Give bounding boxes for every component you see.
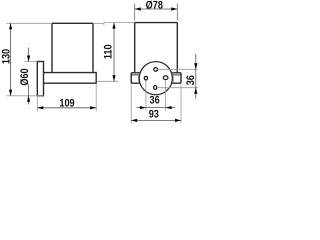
extension line 109 right [95, 83, 97, 111]
dimension Ø78 line [135, 8, 178, 10]
dimension 93 arrow right [175, 119, 181, 122]
left view: tumbler (side view) [52, 23, 93, 72]
svg-text:36: 36 [185, 75, 197, 85]
dimension 130 arrow up [9, 23, 12, 29]
dimension 36h arrow left (outside right) [166, 106, 172, 109]
svg-text:Ø60: Ø60 [19, 68, 31, 85]
ring band inner line right [172, 74, 181, 76]
right view: wall rosette circle [139, 62, 172, 95]
extension line bottom (130 / Ø60) [7, 95, 44, 97]
screw hole top [154, 68, 158, 72]
extension line 93 left [130, 85, 132, 124]
extension elbow tick [103, 23, 105, 26]
svg-text:110: 110 [102, 44, 114, 59]
extension line Ø60 top [24, 61, 37, 63]
dimension 130 line [10, 23, 12, 96]
dimension 109 arrow left [37, 106, 43, 109]
extension line from left cup top [93, 22, 104, 24]
screw hole bottom [154, 86, 157, 90]
extension line 36v top (from top hole) [158, 68, 198, 70]
left view: wall rosette (side view) [37, 62, 43, 96]
dimension 36v line [195, 54, 197, 99]
dimension 36h line [137, 107, 176, 109]
svg-text:130: 130 [0, 49, 12, 64]
ring band inner line left [131, 74, 140, 76]
extension line 110 bottom [97, 80, 119, 82]
extension line 36h left (from left hole) [145, 81, 147, 111]
dimension Ø78 arrow right [171, 7, 177, 10]
dimension 36v arrow up (outside bottom) [194, 88, 197, 94]
right view: holder ring band (lines stop at rosette circle) [131, 73, 181, 83]
dimension Ø78 ext lines [135, 3, 178, 20]
ring channel vertical right [173, 75, 175, 83]
dimension 109 line [37, 107, 96, 109]
dimension 36v arrow down (outside top) [194, 63, 197, 69]
left view: holder arm / ring (side view) [44, 73, 97, 84]
dimension 130 arrow down [9, 90, 12, 96]
ring channel vertical left [137, 75, 139, 83]
extension line top (130) [7, 22, 53, 24]
dimension 110 arrow up [112, 23, 115, 29]
svg-text:36: 36 [150, 94, 160, 106]
dimension Ø78 arrow left [135, 7, 141, 10]
svg-text:109: 109 [59, 98, 74, 110]
dimension 93 arrow left [131, 119, 137, 122]
svg-text:93: 93 [149, 108, 159, 120]
dimension 36h arrow right (outside left) [140, 106, 146, 109]
dimension 93 line [131, 119, 181, 121]
svg-text:Ø78: Ø78 [146, 0, 163, 11]
dimension 109 arrow right [90, 106, 96, 109]
extension line 36h right (from right hole) [165, 80, 167, 111]
dimension 110 line [113, 23, 115, 82]
extension line 36v bottom (from bottom hole) [158, 87, 198, 89]
dimension Ø60 line + outside arrows [28, 48, 30, 105]
right view: tumbler (front view) [135, 23, 178, 73]
extension line 109 left [36, 96, 38, 112]
screw hole right (slot) [163, 76, 168, 80]
dimension 110 arrow down [112, 75, 115, 81]
extension line 93 right [180, 85, 182, 124]
screw hole left [144, 76, 147, 80]
extension line 110 top [104, 22, 135, 24]
